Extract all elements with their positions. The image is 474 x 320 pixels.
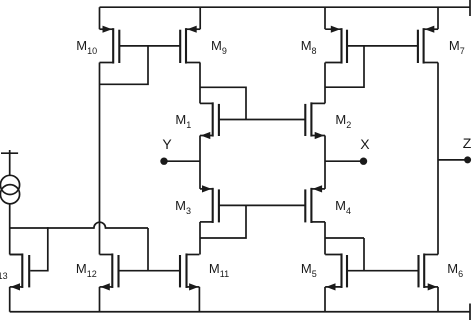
wire M10-M9 gate line [119, 45, 180, 47]
wire M10 drain down to M12 drain (long) [99, 63, 101, 255]
wire bias node down to M13 drain [9, 228, 11, 255]
wire M12-M11 gate line [119, 270, 181, 272]
transistor M4 [305, 185, 325, 223]
wire M11 source to VSS [198, 287, 200, 312]
wire M4 drain down to M5 drain [324, 222, 326, 255]
wire M9 drain down to M1 drain [199, 63, 201, 104]
transistor M1 [200, 102, 219, 139]
transistor M10 [100, 26, 120, 64]
svg-text:M10: M10 [76, 38, 97, 56]
svg-text:M5: M5 [301, 261, 317, 279]
svg-text:Z: Z [463, 135, 472, 151]
power positive supply terminal of bias source [1, 150, 18, 176]
wire M5 drain tap horizontal [325, 237, 364, 239]
svg-text:X: X [360, 136, 370, 152]
wire M13 source to VSS [9, 287, 11, 312]
wire M8 drain down to M2 drain [324, 63, 326, 104]
transistor M9 [180, 26, 200, 64]
svg-text:M11: M11 [209, 261, 229, 279]
wire bias line with hop over M12 drain [10, 222, 148, 228]
node X [325, 158, 367, 165]
transistor M5 [325, 253, 347, 290]
svg-text:M8: M8 [301, 38, 317, 56]
transistor M3 [200, 185, 219, 223]
svg-text:M2: M2 [335, 112, 351, 130]
svg-text:M9: M9 [211, 38, 227, 56]
wire M13 drain lead [10, 254, 23, 256]
wire M12 source to VSS [99, 287, 101, 312]
wire M1 gate tap to drain [200, 87, 246, 119]
wire VDD top rail [100, 6, 471, 8]
wire M5-M6 gate line [347, 270, 419, 272]
svg-text:M1: M1 [175, 112, 191, 130]
wire M3-M4 common gate line [219, 204, 305, 206]
svg-text:M6: M6 [447, 261, 463, 279]
wire X branch vertical M2 source to M4 source [324, 136, 326, 189]
transistor M6 [419, 253, 439, 290]
wire VSS bottom rail [10, 311, 471, 313]
power VSS terminal tick [469, 304, 471, 320]
wire M13 gate stub [30, 227, 48, 271]
transistor M8 [325, 26, 347, 64]
wire M1-M2 common gate line [219, 119, 305, 121]
svg-text:M7: M7 [449, 38, 465, 56]
wire M6 source to VSS [437, 287, 439, 312]
wire M8 gate-drain tap [325, 46, 364, 87]
transistor M12 [100, 253, 119, 290]
svg-text:Y: Y [162, 136, 172, 152]
node Y [160, 158, 200, 165]
wire Y branch vertical M1 source to M3 source [199, 136, 201, 189]
transistor M7 [418, 26, 438, 64]
current source I_bias [0, 175, 19, 204]
wire current source to bias node [9, 204, 11, 229]
wire M3 gate tap to drain [200, 205, 246, 238]
wire bias tap down to M12-M11 gate line [147, 228, 149, 271]
node Z [438, 156, 471, 163]
svg-text:M13: M13 [0, 263, 8, 281]
power VDD terminal tick [469, 0, 471, 16]
transistor M13 [10, 253, 30, 290]
svg-text:M3: M3 [175, 198, 191, 216]
wire M5 source to VSS [324, 287, 326, 312]
wire M8 source to VDD [324, 7, 326, 29]
wire M8-M7 gate line [347, 45, 418, 47]
wire M7 drain down to M6 drain (Z branch) [437, 63, 439, 255]
wire M10 source to VDD [99, 7, 101, 29]
transistor M2 [305, 102, 325, 139]
svg-text:M12: M12 [76, 261, 97, 279]
wire M5 gate-drain tap [363, 238, 365, 271]
wire M3 drain down to M11 drain [199, 222, 201, 255]
transistor M11 [180, 253, 199, 290]
wire M9 source to VDD [199, 7, 201, 29]
wire M7 source to VDD [437, 7, 439, 29]
wire M10 gate-drain tap [100, 46, 149, 84]
svg-text:M4: M4 [335, 198, 351, 216]
